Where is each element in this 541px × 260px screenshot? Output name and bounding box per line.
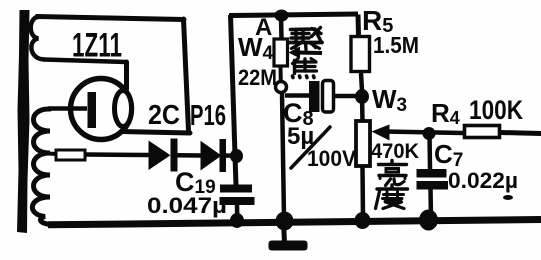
tube V1 envelope: [71, 79, 132, 140]
label ju (focus char 1): [290, 28, 322, 50]
wire D2 to junction: [226, 153, 238, 158]
W4 wiper arrow: [289, 47, 323, 59]
svg-text:100K: 100K: [469, 95, 523, 125]
bottom ground rail: [48, 220, 541, 225]
left edge bar: [17, 10, 30, 233]
label jiao (focus char 2): [293, 59, 317, 78]
rail junction dot C19: [230, 213, 244, 228]
label liang (brightness char 1): [379, 161, 407, 186]
scan speck: [503, 195, 513, 200]
svg-text:W3: W3: [372, 84, 407, 116]
svg-text:470K: 470K: [371, 140, 419, 163]
svg-text:2C: 2C: [148, 99, 180, 130]
diode D1: [149, 139, 178, 172]
potentiometer W3: [356, 121, 370, 219]
label du (brightness char 2): [376, 185, 408, 209]
svg-text:R4: R4: [431, 98, 460, 128]
svg-text:22M: 22M: [238, 65, 277, 90]
svg-text:1Z11: 1Z11: [72, 27, 122, 65]
svg-text:1.5M: 1.5M: [373, 32, 419, 58]
wire coil to tube electrode: [48, 106, 87, 111]
capacitor C19: [220, 185, 255, 221]
W3 wiper arrow + wire to R4: [372, 125, 464, 141]
wire node to W3: [360, 97, 365, 121]
transformer winding T upper (1Z11 loop): [31, 17, 190, 134]
svg-text:C7: C7: [434, 139, 463, 171]
wire W4 terminal to C8: [285, 93, 310, 98]
rail junction dot W3: [355, 212, 371, 229]
tall vertical wire (HV line): [231, 15, 237, 186]
rail junction dot C7: [419, 210, 438, 231]
resistor R5: [351, 15, 370, 92]
capacitor C7: [417, 134, 449, 219]
svg-text:100V: 100V: [307, 146, 356, 171]
svg-text:P16: P16: [190, 100, 226, 132]
wire C8 to node: [334, 94, 357, 99]
junction dot C7: [423, 127, 436, 140]
svg-text:0.047µ: 0.047µ: [147, 193, 227, 218]
wire D1 to D2: [177, 153, 202, 158]
ground symbol: [269, 222, 308, 251]
rail junction dot ground: [276, 212, 294, 231]
wire R4 to right edge: [501, 133, 541, 134]
tube V1 electrode bar: [88, 92, 97, 128]
capacitor C8 (electrolytic): [309, 81, 334, 113]
diode D2: [201, 139, 227, 172]
junction dot diode/C19: [230, 149, 243, 163]
wire resistor to diode D1: [86, 152, 150, 157]
top rail wire: [229, 14, 358, 16]
wire W4 terminal to ground rail: [282, 92, 284, 219]
potentiometer W4: [274, 16, 288, 93]
node A dot: [275, 10, 289, 22]
svg-text:0.022µ: 0.022µ: [448, 168, 518, 193]
resistor R4: [465, 126, 500, 138]
transformer winding lower (coil): [32, 109, 56, 225]
fraction slash: [291, 127, 330, 168]
resistor (unlabeled) in series with diodes: [48, 150, 85, 160]
node dot R5/W3/C8: [355, 89, 369, 104]
